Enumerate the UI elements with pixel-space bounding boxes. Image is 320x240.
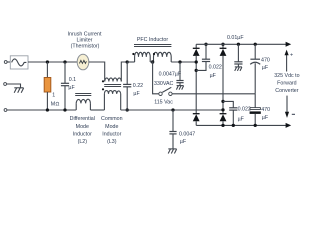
svg-text:1: 1 — [52, 92, 55, 98]
wire switch to capacitor midpoint — [172, 93, 255, 95]
wire bottom output rail — [196, 124, 286, 126]
svg-text:µF: µF — [68, 85, 75, 91]
terminal line input — [4, 61, 7, 64]
label 0.022 uF upper — [209, 64, 222, 79]
svg-text:Inductor: Inductor — [102, 132, 121, 138]
node bridge leg2 snubber — [221, 100, 224, 103]
elbow leg2 to snubber cap — [223, 101, 233, 107]
inductor L2 core — [75, 94, 91, 96]
svg-text:0.0047: 0.0047 — [179, 131, 195, 137]
label Differential Mode Inductor (L2) — [70, 116, 95, 145]
capacitor C9 470uF lower lead — [254, 94, 256, 108]
wire rail 0.22 node to PFC — [127, 61, 134, 63]
svg-text:Mode: Mode — [76, 124, 89, 130]
wire top output rail — [196, 43, 286, 45]
wire terminal to AC source — [7, 61, 10, 63]
PFC inductor phase dot 2 — [153, 53, 155, 55]
output arrow up plus — [285, 50, 294, 72]
svg-text:µF: µF — [210, 73, 217, 79]
thermistor RT1 — [77, 54, 89, 70]
node cap 0.1 bottom — [63, 108, 66, 111]
choke L3 bottom lead left — [103, 94, 105, 110]
chassis ground C3 — [176, 86, 183, 90]
choke L3 bottom lead right — [120, 94, 122, 110]
node cap 0.0047 bottom rail — [171, 108, 174, 111]
capacitor C3 0.0047uF lead — [179, 62, 181, 81]
svg-text:0.022: 0.022 — [238, 107, 251, 113]
diode D1 — [193, 44, 200, 113]
capacitor C2 0.22uF lead top — [126, 62, 128, 84]
svg-text:330VAC: 330VAC — [154, 81, 174, 87]
svg-text:Common: Common — [101, 116, 123, 122]
capacitor C4 0.0047uF — [169, 132, 176, 149]
svg-text:µF: µF — [238, 117, 245, 123]
wire neutral rail right — [121, 109, 223, 111]
arrow bottom output — [286, 123, 292, 128]
node cap 470 top rail — [254, 43, 257, 46]
svg-text:Converter: Converter — [275, 88, 298, 94]
label Common Mode Inductor (L3) — [101, 116, 123, 145]
label 325 Vdc to Forward Converter — [274, 73, 299, 94]
diode D2 — [220, 44, 227, 113]
svg-text:Differential: Differential — [70, 116, 95, 122]
resistor R1 1 Mohm — [44, 78, 51, 93]
label 0.01uF — [227, 35, 244, 41]
svg-text:0.1: 0.1 — [69, 77, 76, 83]
choke L3 phase dot top — [102, 80, 104, 82]
svg-text:Mode: Mode — [105, 124, 118, 130]
svg-text:+: + — [290, 53, 293, 59]
label 0.022 uF lower — [238, 107, 251, 123]
svg-text:0.0047µF: 0.0047µF — [159, 71, 182, 77]
node cap 0.01 rail — [237, 43, 240, 46]
capacitor C2 0.22uF — [123, 84, 131, 86]
capacitor C7 0.022uF lower — [229, 108, 237, 126]
svg-text:(Thermistor): (Thermistor) — [71, 44, 100, 50]
svg-text:PFC Inductor: PFC Inductor — [137, 37, 168, 43]
svg-text:µF: µF — [262, 65, 269, 71]
label PFC Inductor — [137, 37, 168, 43]
varistor stub wire — [153, 62, 159, 94]
chassis ground C6 — [235, 67, 242, 71]
svg-text:325 Vdc to: 325 Vdc to — [274, 73, 299, 79]
wire thermistor to L3 — [89, 62, 105, 82]
PFC inductor winding 2 — [154, 52, 172, 62]
terminal earth — [4, 83, 7, 86]
svg-text:0.01µF: 0.01µF — [227, 35, 244, 41]
chassis ground input — [14, 88, 23, 93]
capacitor C9 470uF lower — [250, 108, 261, 126]
capacitor C4 0.0047uF lead — [172, 110, 174, 132]
label 1 Mohm — [51, 92, 59, 107]
node bridge leg2 neutral — [221, 108, 224, 111]
node cap 0.022 top rail — [204, 43, 207, 46]
resistor R1 lead bottom — [46, 92, 48, 110]
svg-text:(L2): (L2) — [78, 139, 88, 145]
choke L3 phase dot bottom — [102, 88, 104, 90]
wire PFC tap short — [150, 61, 153, 63]
capacitor C5 0.022uF top lead — [205, 44, 207, 59]
svg-text:0.022: 0.022 — [209, 64, 222, 70]
svg-text:µF: µF — [262, 115, 269, 121]
node cap 0.0047 top — [178, 60, 181, 63]
diode D4 lower — [220, 114, 227, 126]
AC source V1 — [10, 56, 28, 69]
svg-text:µF: µF — [133, 91, 140, 97]
svg-text:Inductor: Inductor — [73, 132, 92, 138]
PFC inductor core — [134, 45, 171, 47]
node PFC tap — [151, 60, 154, 63]
wire rail PFC to bridge — [171, 61, 196, 63]
node lower rail cap470 — [254, 124, 257, 127]
label 0.1 uF — [68, 77, 76, 91]
label 470 uF lower — [261, 107, 270, 121]
choke L3 top winding — [105, 78, 122, 82]
inductor L2 lead right — [89, 103, 91, 110]
label 0.22 uF — [133, 83, 143, 97]
label 115 Vac — [154, 100, 173, 106]
svg-text:115 Vac: 115 Vac — [154, 100, 173, 106]
node lower rail leg2 — [221, 124, 224, 127]
capacitor C1 lead bottom — [64, 86, 66, 110]
resistor R1 lead top — [46, 62, 48, 78]
node bridge leg1 snubber — [195, 69, 198, 72]
svg-text:µF: µF — [180, 139, 187, 145]
terminal neutral input — [4, 109, 7, 112]
capacitor C8 470uF lead top — [254, 44, 256, 59]
svg-text:(L3): (L3) — [107, 139, 117, 145]
capacitor C6 0.01uF — [234, 62, 242, 67]
node cap 0.22 top — [126, 60, 129, 63]
svg-text:Forward: Forward — [277, 80, 296, 86]
chassis ground C4 — [168, 149, 176, 154]
capacitor C5 0.022uF — [196, 59, 210, 70]
node bridge leg1 line — [195, 60, 198, 63]
choke L3 core — [104, 85, 121, 87]
label 0.0047 uF bottom — [179, 131, 195, 145]
svg-text:470: 470 — [261, 58, 270, 64]
choke L3 top lead right to rail — [121, 62, 134, 82]
wire top rail AC box to thermistor — [28, 61, 78, 63]
inductor L2 winding — [76, 99, 90, 103]
wire earth terminal — [7, 84, 21, 88]
label 330VAC — [154, 81, 174, 87]
arrow top output — [286, 42, 292, 47]
PFC inductor phase dot 1 — [132, 53, 134, 55]
capacitor C1 0.1uF — [61, 83, 69, 85]
wire neutral rail left — [7, 109, 76, 111]
diode D3 lower — [193, 114, 200, 126]
wire neutral rail between L2 and L3 — [90, 109, 104, 111]
svg-text:0.22: 0.22 — [133, 83, 143, 89]
node lower rail snubber — [232, 124, 235, 127]
label 0.0047uF mid — [159, 71, 182, 77]
label Inrush Current Limiter (Thermistor) — [68, 32, 102, 50]
capacitor C3 0.0047uF — [176, 81, 183, 86]
node resistor bottom — [46, 108, 49, 111]
choke L3 bottom winding — [104, 91, 120, 94]
switch SW1 — [159, 87, 172, 95]
capacitor C1 0.1uF lead top — [64, 62, 66, 83]
output arrow down minus — [285, 96, 295, 118]
capacitor C2 lead bottom — [126, 87, 128, 110]
svg-text:470: 470 — [261, 107, 270, 113]
capacitor C6 0.01uF lead — [237, 44, 239, 62]
capacitor C8 470uF — [250, 59, 260, 94]
node bridge leg2 top rail — [221, 43, 224, 46]
PFC inductor winding 1 — [135, 52, 151, 62]
node cap 0.1 top — [63, 60, 66, 63]
inductor L2 lead left — [75, 103, 77, 110]
svg-text:MΩ: MΩ — [51, 102, 59, 108]
node resistor top — [46, 60, 49, 63]
label 470 uF upper — [261, 58, 270, 72]
node cap 0.22 bottom — [126, 108, 129, 111]
